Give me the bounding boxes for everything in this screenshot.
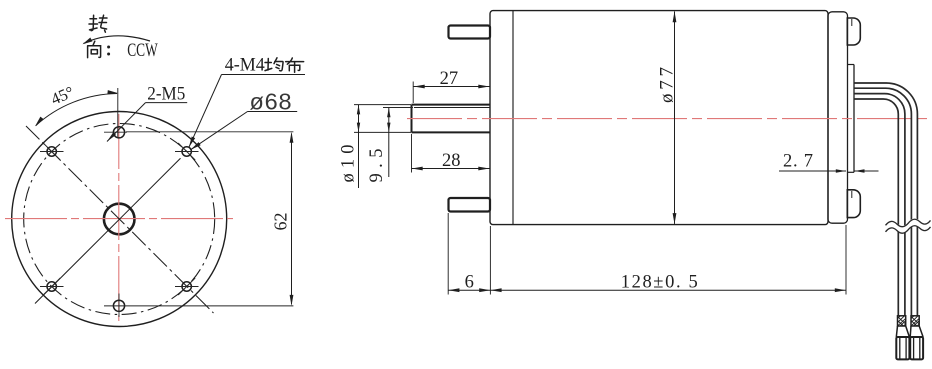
shaft with flat [412,105,491,133]
label 4-M4 evenly spaced with leader [189,56,305,148]
hole lower-left M4 [47,282,56,291]
dimension 9.5 [367,108,413,183]
red horizontal centerline [5,218,233,220]
outer circle (motor body) [12,112,227,327]
svg-text:6: 6 [465,273,474,293]
wire crimp right hatched [911,316,919,326]
svg-text:62: 62 [270,213,290,231]
dimension 45 degrees arc [35,82,119,126]
rotation note glyph xiang + colon [88,41,101,57]
side view motor body [490,11,828,225]
svg-text:ø77: ø77 [656,67,677,103]
extension line bottom hole to 62 dim [104,305,293,307]
svg-text:ø10: ø10 [338,145,358,183]
label 2-M5 with leader [107,85,187,142]
hole upper-left M4 [47,147,56,156]
wire crimp left hatched [898,316,906,326]
svg-text:4-M4: 4-M4 [225,56,265,76]
dimension o10 [338,105,411,188]
rear end cap [828,12,848,223]
svg-text:9.5: 9.5 [367,149,387,183]
hole centerline ticks [40,132,199,317]
top mounting stud [449,26,491,39]
terminal plate 2.7 thick [848,65,855,173]
label o68 with leader [191,88,298,150]
svg-text:ø68: ø68 [249,88,292,114]
rotation note glyph zhuan [89,15,107,32]
hole lower-right M4 [182,282,191,291]
dimension 62 [270,132,293,306]
dimension 128 plus minus 0.5 [490,225,846,295]
dimension 27 [413,69,489,103]
rotation arc arrow CCW [83,36,151,44]
terminal body right [910,337,923,359]
bottom rear tab [847,190,860,218]
terminal taper left [896,326,909,337]
extension line vertical above top hole [117,88,119,137]
hole upper-right M4 [182,147,191,156]
diagonal centerline 135deg dash-dot [26,126,214,313]
dimension o77 [656,11,677,224]
svg-text:27: 27 [440,69,459,89]
dimension 2.7 [779,152,879,173]
hole top M5 [113,127,124,138]
bottom mounting stud [449,198,491,212]
diagonal leader 45deg through holes [35,158,181,303]
extension line top hole to 62 dim [126,131,293,133]
wire break symbol [886,218,931,233]
glyph bu [286,58,304,72]
red shaft axis centerline [407,118,932,120]
svg-text:128±0. 5: 128±0. 5 [621,273,698,293]
svg-text:28: 28 [442,151,461,171]
top rear tab [847,18,860,45]
red vertical centerline [118,114,120,321]
svg-text:CCW: CCW [127,41,158,61]
hole bottom M5 [113,300,124,311]
terminal body left [896,337,909,359]
bolt circle o68 dash-dot [24,124,215,315]
left end view: flange face circle [5,112,233,327]
svg-text:2. 7: 2. 7 [783,152,813,172]
front end-bell line [512,11,514,225]
lead wires [854,83,917,316]
shaft hole [104,204,135,235]
dimension 6 [448,213,490,295]
dimension 28 [412,134,490,173]
svg-text:2-M5: 2-M5 [147,85,185,105]
terminal taper right [910,326,923,337]
glyph jun [265,58,283,71]
svg-text:45°: 45° [48,82,77,109]
